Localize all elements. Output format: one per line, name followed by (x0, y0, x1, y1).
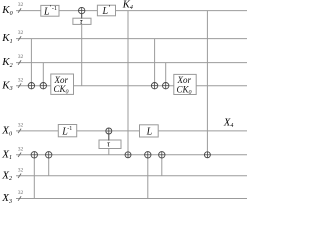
wire X1 tap through tau to xor on X0 (108, 131, 110, 155)
bus slash K0 (18, 2, 24, 13)
svg-text:32: 32 (18, 77, 24, 83)
wire X3 to first xor on X1 (left) (33, 155, 35, 199)
svg-text:K4: K4 (122, 0, 133, 11)
wire X3 line (16, 198, 247, 200)
svg-text:32: 32 (18, 146, 24, 152)
wire K4 line down to right xor on X1 (206, 11, 208, 155)
svg-text:32: 32 (18, 123, 24, 129)
xor 2 on X1 left (46, 152, 52, 158)
svg-text:32: 32 (18, 190, 24, 196)
wire X2 line (16, 175, 247, 177)
svg-text:32: 32 (18, 54, 24, 60)
svg-text:32: 32 (18, 30, 24, 36)
svg-text:-1: -1 (52, 5, 57, 12)
bus slash X2 (18, 167, 24, 178)
wire X1 line (16, 154, 247, 156)
wire K1 to xor on K3 (right) (154, 39, 156, 86)
svg-text:X1: X1 (1, 148, 12, 161)
wire stub xor X0 to tau (108, 134, 110, 141)
svg-text:K3: K3 (1, 79, 12, 92)
svg-text:': ' (108, 3, 110, 12)
xor on K0 line (79, 7, 85, 13)
box L on X0 (140, 125, 159, 138)
wire K3 line (16, 85, 247, 87)
xor round key on X1 (125, 152, 131, 158)
xor 2 on K3 right (163, 83, 169, 89)
xor 5 on X1 right (204, 152, 210, 158)
svg-text:X2: X2 (1, 169, 12, 182)
wire X2 to second xor on X1 (left) (48, 155, 50, 176)
wire K2 to xor on K3 (left) (42, 63, 44, 86)
wire K0 line (16, 10, 247, 12)
wire K1 line (16, 38, 247, 40)
svg-text:32: 32 (18, 167, 24, 173)
box tau (round function) (99, 139, 121, 148)
wire X3 to xor on X1 (right) (147, 155, 149, 199)
xor on X0 line (106, 128, 112, 134)
svg-text:32: 32 (18, 2, 24, 8)
bus slash X1 (18, 146, 24, 157)
xor 1 on K3 right (151, 83, 157, 89)
box Xor CK0 (left) (51, 74, 74, 96)
wire X0 line (16, 130, 247, 132)
wire K1 to xor on K3 (left) (30, 39, 32, 86)
xor 4 on X1 mid (159, 152, 165, 158)
bus slash K3 (18, 77, 24, 88)
wire K2 line (16, 62, 247, 64)
xor 3 on X1 mid (145, 152, 151, 158)
bus slash K1 (18, 30, 24, 41)
xor 1 on K3 left (28, 83, 34, 89)
wire X2 to xor on X1 (right) (161, 155, 163, 176)
box Xor CK0 (right) (174, 74, 196, 96)
bus slash K2 (18, 54, 24, 65)
wire K4 round key down to xor on X1 (127, 11, 129, 155)
svg-text:X4: X4 (223, 118, 233, 129)
svg-text:K0: K0 (1, 4, 12, 17)
svg-text:X0: X0 (1, 125, 12, 138)
bus slash X3 (18, 190, 24, 201)
wire K3 tap through tau to xor on K0 (81, 11, 83, 86)
box tau (key schedule) (73, 17, 91, 26)
svg-text:X3: X3 (1, 192, 12, 204)
box L'-1 on K0 (41, 4, 59, 17)
wire K2 to xor on K3 (right) (165, 63, 167, 86)
svg-text:-1: -1 (67, 126, 72, 132)
svg-text:K2: K2 (1, 56, 12, 69)
wire stub xor K0 to tau (81, 13, 83, 18)
xor 1 on X1 left (31, 152, 37, 158)
box L' on K0 (97, 3, 115, 17)
svg-text:L: L (146, 127, 153, 138)
xor 2 on K3 left (40, 83, 46, 89)
svg-text:K1: K1 (1, 32, 12, 45)
box L-1 on X0 (58, 125, 76, 138)
bus slash X0 (18, 123, 24, 134)
